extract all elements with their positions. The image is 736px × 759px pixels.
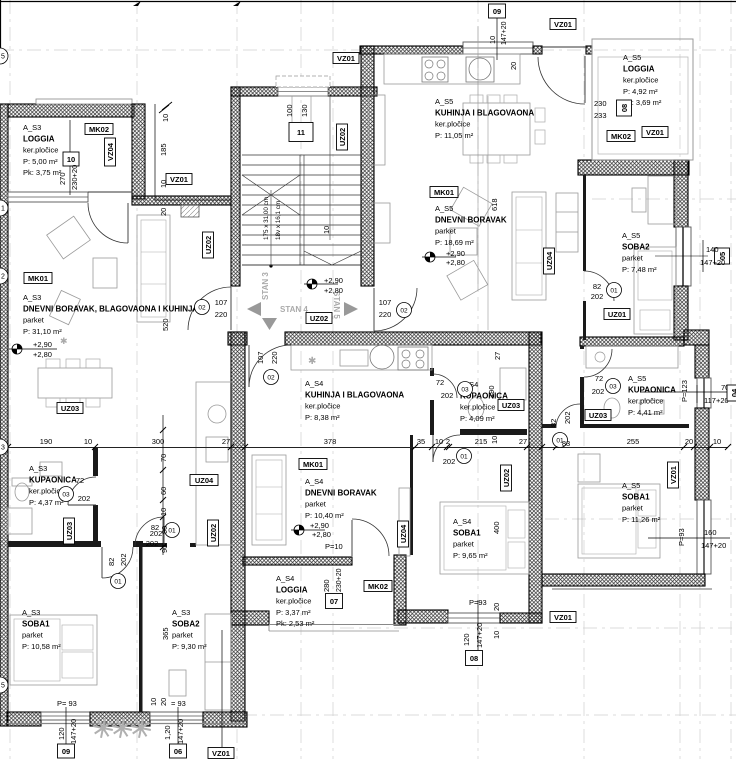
A_S3 SOBA1 door arc <box>102 547 133 578</box>
svg-text:A_S5: A_S5 <box>628 374 646 383</box>
A_S4 loggia door arc <box>352 519 389 556</box>
svg-text:300: 300 <box>152 437 165 446</box>
entrance canopy <box>276 76 330 87</box>
A_S3 north wall <box>132 196 231 205</box>
svg-text:A_S4: A_S4 <box>305 379 323 388</box>
svg-text:202: 202 <box>78 494 91 503</box>
A_S4 SOBA1 wardrobe <box>399 488 410 556</box>
A_S3 SOBA2 window <box>150 712 203 720</box>
svg-text:ker.pločice: ker.pločice <box>23 146 58 155</box>
A_S3 bathroom fixtures <box>15 483 29 501</box>
entrance door <box>278 87 328 96</box>
A_S5 SOBA1 bed <box>578 484 660 558</box>
svg-text:+2,90: +2,90 <box>310 521 329 530</box>
svg-text:03: 03 <box>461 387 469 394</box>
label VZ01 A_S5 soba1 <box>668 462 679 488</box>
svg-text:A_S3: A_S3 <box>23 293 41 302</box>
svg-text:parket: parket <box>22 631 44 640</box>
A_S3 loggia parapet <box>36 99 132 104</box>
A_S5 bathroom window <box>697 378 711 408</box>
svg-text:83: 83 <box>562 439 570 448</box>
svg-text:LOGGIA: LOGGIA <box>23 135 55 144</box>
svg-text:DNEVNI BORAVAK, BLAGOVAONA I K: DNEVNI BORAVAK, BLAGOVAONA I KUHINJA <box>23 305 198 314</box>
svg-text:P: 11,26 m²: P: 11,26 m² <box>622 515 661 524</box>
svg-text:KUPAONICA: KUPAONICA <box>628 386 676 395</box>
A_S5 SOBA2 north wall <box>578 160 689 175</box>
svg-text:190: 190 <box>40 437 53 446</box>
A_S3 level mark <box>9 344 57 354</box>
A_S5 SOBA2 window <box>676 227 691 286</box>
svg-text:202: 202 <box>119 553 128 566</box>
label UZ02 corridor <box>306 313 332 324</box>
svg-text:SOBA1: SOBA1 <box>22 620 50 629</box>
svg-text:01: 01 <box>610 288 618 295</box>
stairwell top wall left <box>231 87 278 96</box>
svg-text:10: 10 <box>488 36 497 44</box>
svg-text:09: 09 <box>62 747 70 756</box>
svg-text:P: 9,30 m²: P: 9,30 m² <box>172 642 207 651</box>
svg-text:20: 20 <box>492 603 501 611</box>
svg-text:233: 233 <box>594 111 607 120</box>
label UZ04 center <box>190 475 218 486</box>
svg-text:255: 255 <box>627 437 640 446</box>
A_S5 side table <box>369 203 390 243</box>
svg-text:A_S4: A_S4 <box>276 574 294 583</box>
svg-text:UZ04: UZ04 <box>195 476 214 485</box>
svg-text:60: 60 <box>159 487 168 495</box>
right exterior wall upper <box>674 160 688 227</box>
A_S3 SOBA2 desk <box>169 670 186 696</box>
label VZ01 top <box>333 53 359 64</box>
svg-text:A_S4: A_S4 <box>453 517 471 526</box>
A_S5 bathroom south wall <box>580 424 689 428</box>
svg-text:72: 72 <box>595 374 603 383</box>
svg-text:P: 3,37 m²: P: 3,37 m² <box>276 608 311 617</box>
A_S5 loggia door opening <box>542 46 586 48</box>
svg-text:LOGGIA: LOGGIA <box>623 65 655 74</box>
label UZ03 A_S5 bath <box>585 410 611 421</box>
svg-text:06: 06 <box>174 747 182 756</box>
svg-text:147+20: 147+20 <box>475 623 484 648</box>
label UZ02 A_S4 <box>501 465 512 491</box>
svg-text:2: 2 <box>1 274 5 281</box>
central dividing wall <box>231 332 245 721</box>
svg-text:147+20: 147+20 <box>700 258 725 267</box>
A_S3 bathroom south wall <box>8 541 101 547</box>
svg-text:03: 03 <box>609 384 617 391</box>
A_S4 stove <box>398 347 428 370</box>
A_S5 SOBA2 west wall upper <box>583 175 586 271</box>
tree 2 <box>112 718 132 738</box>
right exterior wall below window <box>674 286 688 340</box>
tree 1 <box>93 718 113 738</box>
A_S3 loggia top wall <box>8 104 134 117</box>
A_S3 SOBA2 north wall seg <box>143 543 167 547</box>
svg-text:A_S5: A_S5 <box>622 231 640 240</box>
A_S4 north wall <box>285 332 541 345</box>
A_S3 washing machine <box>8 508 32 534</box>
A_S4 loggia parapet <box>269 624 399 626</box>
label UZ04 A_S5 <box>544 248 555 274</box>
door tag 03 A_S5 bath <box>606 379 621 394</box>
svg-text:UZ03: UZ03 <box>502 401 520 410</box>
svg-text:VZ01: VZ01 <box>554 613 572 622</box>
svg-text:10: 10 <box>67 155 75 164</box>
svg-text:DNEVNI BORAVAK: DNEVNI BORAVAK <box>305 489 377 498</box>
svg-text:72: 72 <box>436 378 444 387</box>
label 11 entrance <box>289 123 313 142</box>
label 10 <box>63 152 79 166</box>
label MK02 A_S3 loggia <box>85 124 113 135</box>
label 08 right <box>617 100 632 116</box>
A_S4 SOBA1 window <box>448 613 500 623</box>
label 09 top <box>489 4 506 18</box>
svg-text:70: 70 <box>159 454 168 462</box>
right exterior wall mid <box>695 408 709 500</box>
svg-text:+2,90: +2,90 <box>324 276 343 285</box>
stairwell top wall right <box>328 87 377 96</box>
svg-text:KUHINJA I BLAGOVAONA: KUHINJA I BLAGOVAONA <box>305 391 404 400</box>
svg-text:MK01: MK01 <box>434 188 454 197</box>
svg-text:parket: parket <box>172 631 194 640</box>
A_S3 SOBA2 wardrobe <box>205 614 231 710</box>
label VZ01 bottom center <box>208 748 234 759</box>
A_S5 kitchen counter <box>384 54 520 84</box>
svg-text:27: 27 <box>519 437 527 446</box>
A_S5 bath sink <box>640 400 664 414</box>
svg-text:35: 35 <box>417 437 425 446</box>
svg-text:400: 400 <box>492 521 501 534</box>
A_S4 living/SOBA1 divider <box>410 435 413 555</box>
label 09 bottom <box>58 744 75 758</box>
A_S5 south wall <box>542 574 705 586</box>
svg-text:120: 120 <box>57 727 66 740</box>
svg-text:270: 270 <box>58 172 67 185</box>
dining table A_S3 <box>38 368 112 398</box>
svg-text:185: 185 <box>159 143 168 156</box>
top left vertical dim line <box>154 104 156 200</box>
svg-text:Pk: 3,75 m²: Pk: 3,75 m² <box>23 168 62 177</box>
corridor STAN arrows <box>247 302 261 316</box>
stairwell right wall <box>361 46 374 286</box>
A_S3 south wall seg3 <box>203 712 247 727</box>
corridor level mark <box>304 279 338 289</box>
A_S3 entry door arc <box>188 287 231 330</box>
svg-text:✱: ✱ <box>60 336 68 346</box>
label 05 right <box>715 248 730 264</box>
label VZ01 top right <box>550 19 576 30</box>
A_S5 tall cabinet <box>369 95 385 165</box>
svg-text:P: 31,10 m²: P: 31,10 m² <box>23 327 62 336</box>
svg-text:10: 10 <box>713 437 721 446</box>
svg-text:+2,90: +2,90 <box>446 249 465 258</box>
A_S4 shower <box>500 368 526 400</box>
label UZ02 A_S3 kitchen <box>208 520 219 546</box>
door tag 01 A_S5 soba1 <box>553 433 568 448</box>
svg-text:2: 2 <box>446 437 450 446</box>
svg-text:P: 4,37 m²: P: 4,37 m² <box>29 498 64 507</box>
svg-text:ker.pločice: ker.pločice <box>435 120 470 129</box>
svg-text:202: 202 <box>443 457 456 466</box>
svg-text:230: 230 <box>594 99 607 108</box>
A_S5 bathroom door arc <box>584 349 612 377</box>
label VZ01 bottom right <box>550 612 576 623</box>
svg-text:130: 130 <box>300 104 309 117</box>
svg-text:P=123: P=123 <box>680 380 689 402</box>
svg-text:618: 618 <box>490 198 499 211</box>
A_S3 SOBA2 north wall seg2 <box>190 543 196 547</box>
svg-text:365: 365 <box>161 627 170 640</box>
A_S5 north wall right stub <box>586 46 592 54</box>
coffee table A_S3 <box>93 258 117 288</box>
svg-text:P: 10,40 m²: P: 10,40 m² <box>305 511 344 520</box>
svg-text:+2,80: +2,80 <box>446 258 465 267</box>
svg-text:A_S5: A_S5 <box>622 481 640 490</box>
bathtub <box>586 346 678 368</box>
svg-text:+2,80: +2,80 <box>33 350 52 359</box>
right exterior step <box>684 330 709 345</box>
A_S5 north wall mid <box>533 46 542 54</box>
door tag 01 A_S3 soba1 <box>111 574 126 589</box>
svg-text:STAN 4: STAN 4 <box>280 305 308 314</box>
svg-text:VZ01: VZ01 <box>669 466 678 484</box>
top center dim <box>496 10 498 60</box>
door tag 01 A_S4 <box>457 449 472 464</box>
svg-text:parket: parket <box>435 227 457 236</box>
A_S3 kitchen counter <box>196 382 232 545</box>
svg-text:ker.pločice: ker.pločice <box>460 403 495 412</box>
svg-text:= 93: = 93 <box>171 699 186 708</box>
A_S3 SOBA1/SOBA2 divider <box>139 543 143 712</box>
A_S5 sink round <box>466 57 494 82</box>
svg-text:MK02: MK02 <box>89 125 109 134</box>
svg-text:STAN 3: STAN 3 <box>261 272 270 300</box>
label MK01 A_S3 <box>24 273 52 284</box>
A_S5 SOBA2 door arc <box>584 271 614 301</box>
A_S4 bathroom south wall stub <box>430 429 434 435</box>
A_S3 kitchen appliance <box>206 437 228 462</box>
svg-text:ker.pločice: ker.pločice <box>276 597 311 606</box>
svg-text:20: 20 <box>159 698 168 706</box>
label VZ01 right loggia <box>642 127 668 138</box>
A_S5 level mark <box>422 252 456 262</box>
tree 3 <box>131 718 151 738</box>
svg-text:A_S4: A_S4 <box>305 477 323 486</box>
A_S3 living furniture <box>47 216 91 259</box>
A_S4 loggia north wall <box>243 557 352 565</box>
main horizontal dimension line <box>8 447 728 449</box>
A_S3 loggia right wall <box>132 104 145 199</box>
svg-text:20: 20 <box>509 62 518 70</box>
sofa A_S3 <box>137 215 170 322</box>
svg-text:parket: parket <box>622 504 644 513</box>
label MK02 A_S4 loggia <box>364 581 392 592</box>
svg-text:+2,80: +2,80 <box>324 286 343 295</box>
svg-text:82: 82 <box>549 419 558 427</box>
svg-text:280: 280 <box>322 579 331 592</box>
A_S4 bathroom door arc <box>433 374 457 398</box>
label UZ03 A_S4 bath <box>498 400 524 411</box>
svg-text:08: 08 <box>620 104 629 112</box>
svg-text:P=10: P=10 <box>325 542 343 551</box>
A_S5 entry door arc <box>374 288 417 331</box>
A_S4 SOBA1 bed <box>440 502 529 574</box>
svg-text:220: 220 <box>270 351 279 364</box>
svg-text:5: 5 <box>1 683 5 690</box>
A_S5 SOBA1 door arc <box>556 404 580 428</box>
left exterior wall <box>0 104 8 726</box>
svg-text:P: 9,65 m²: P: 9,65 m² <box>453 551 488 560</box>
svg-text:10: 10 <box>490 436 499 444</box>
svg-text:82: 82 <box>593 282 601 291</box>
stairs <box>242 155 361 265</box>
svg-text:20: 20 <box>159 208 168 216</box>
label UZ02 stair <box>337 124 348 150</box>
svg-text:P: 4,09 m²: P: 4,09 m² <box>460 414 495 423</box>
svg-text:107: 107 <box>256 351 265 364</box>
door tag 01 soba2 <box>607 283 622 298</box>
A_S5 stove <box>422 57 448 82</box>
svg-text:08: 08 <box>470 654 478 663</box>
A_S4 bathroom south wall <box>460 429 527 435</box>
svg-text:90: 90 <box>160 545 169 553</box>
svg-text:MK02: MK02 <box>368 582 388 591</box>
svg-text:220: 220 <box>215 310 228 319</box>
svg-text:P: 18,69 m²: P: 18,69 m² <box>435 238 474 247</box>
svg-text:220: 220 <box>379 310 392 319</box>
svg-text:A_S5: A_S5 <box>435 204 453 213</box>
A_S3 SOBA1 bed <box>10 615 97 685</box>
svg-text:A_S3: A_S3 <box>29 464 47 473</box>
svg-text:147+20: 147+20 <box>501 21 508 45</box>
A_S4 kitchen counter <box>291 345 432 370</box>
label UZ04 A_S4 soba1 <box>398 521 409 547</box>
A_S4 loggia right wall <box>394 555 406 625</box>
svg-text:P= 93: P= 93 <box>57 699 77 708</box>
svg-text:MK02: MK02 <box>611 132 631 141</box>
A_S3 bath sink <box>40 462 62 476</box>
svg-text:SOBA2: SOBA2 <box>622 243 650 252</box>
svg-text:18v x 16,1 cm: 18v x 16,1 cm <box>275 201 282 240</box>
A_S4 bathroom west wall lower <box>430 400 434 435</box>
svg-text:10: 10 <box>322 226 331 234</box>
svg-text:P: 10,58 m²: P: 10,58 m² <box>22 642 61 651</box>
svg-text:20: 20 <box>685 437 693 446</box>
shaft <box>181 205 199 217</box>
svg-text:VZ04: VZ04 <box>106 142 115 161</box>
A_S4 sofa <box>252 455 286 545</box>
svg-text:UZ03: UZ03 <box>61 404 79 413</box>
svg-text:3: 3 <box>1 445 5 452</box>
A_S3 south wall seg1 <box>7 712 41 726</box>
svg-text:KUHINJA I BLAGOVAONA: KUHINJA I BLAGOVAONA <box>435 109 534 118</box>
svg-text:202: 202 <box>441 391 454 400</box>
svg-text:UZ02: UZ02 <box>338 128 347 146</box>
svg-text:UZ02: UZ02 <box>310 314 328 323</box>
A_S5 SOBA2 bed <box>634 247 676 334</box>
svg-text:190: 190 <box>487 385 496 398</box>
svg-text:07: 07 <box>330 597 338 606</box>
svg-text:72: 72 <box>76 476 84 485</box>
svg-text:04: 04 <box>730 388 736 397</box>
A_S3 kitchen dim line <box>162 415 164 555</box>
svg-text:UZ03: UZ03 <box>65 522 74 540</box>
corridor south wall stub <box>228 332 247 345</box>
svg-text:SOBA1: SOBA1 <box>622 493 650 502</box>
svg-text:09: 09 <box>493 7 501 16</box>
svg-text:LOGGIA: LOGGIA <box>276 586 308 595</box>
A_S5 kitchen window <box>463 42 533 54</box>
svg-text:147+20: 147+20 <box>701 541 726 550</box>
svg-text:02: 02 <box>267 375 275 382</box>
svg-text:A_S3: A_S3 <box>172 608 190 617</box>
svg-text:147+20: 147+20 <box>176 719 185 744</box>
svg-text:202: 202 <box>592 387 605 396</box>
label 08 bottom <box>466 651 483 666</box>
svg-text:UZ02: UZ02 <box>502 469 511 487</box>
svg-text:01: 01 <box>114 579 122 586</box>
door tag 03 A_S3 bath <box>59 487 74 502</box>
svg-text:VZ01: VZ01 <box>212 749 230 758</box>
svg-text:202: 202 <box>591 292 604 301</box>
svg-text:MK01: MK01 <box>28 274 48 283</box>
svg-text:+2,90: +2,90 <box>33 340 52 349</box>
right exterior wall <box>695 345 709 378</box>
svg-text:A_S5: A_S5 <box>623 53 641 62</box>
A_S5 south parapet <box>552 588 712 590</box>
A_S4 bathroom fixtures <box>468 397 484 419</box>
svg-text:03: 03 <box>62 492 70 499</box>
right dim lines <box>702 240 704 272</box>
svg-text:P: 8,38 m²: P: 8,38 m² <box>305 413 340 422</box>
svg-text:parket: parket <box>453 540 475 549</box>
svg-text:90: 90 <box>160 526 169 534</box>
A_S5 north wall left <box>360 46 463 54</box>
label MK01 A_S5 <box>430 187 458 198</box>
svg-text:202: 202 <box>563 411 572 424</box>
label UZ03 A_S3 bath <box>64 518 75 544</box>
svg-text:10: 10 <box>161 114 170 122</box>
svg-text:82: 82 <box>151 523 159 532</box>
svg-text:STAN 5: STAN 5 <box>332 291 341 319</box>
svg-text:A_S3: A_S3 <box>23 123 41 132</box>
svg-text:ker.pločice: ker.pločice <box>628 397 663 406</box>
A_S3 loggia window band <box>8 192 88 202</box>
A_S4 loggia south wall stub <box>231 611 269 625</box>
svg-text:A_S5: A_S5 <box>435 97 453 106</box>
bottom dim lines <box>65 707 67 744</box>
A_S5 coffee table <box>450 228 477 255</box>
svg-text:DNEVNI BORAVAK: DNEVNI BORAVAK <box>435 216 507 225</box>
svg-text:VZ01: VZ01 <box>170 175 188 184</box>
door tag 02 A_S3 <box>195 300 210 315</box>
label 06 bottom <box>170 744 187 758</box>
svg-text:10: 10 <box>159 180 168 188</box>
A_S4 SOBA1 door arc <box>433 435 460 462</box>
svg-text:27: 27 <box>493 352 502 360</box>
A_S4 level mark <box>291 525 325 535</box>
A_S4 sink2 <box>340 350 368 366</box>
svg-text:P: 4,92 m²: P: 4,92 m² <box>623 87 658 96</box>
svg-text:parket: parket <box>305 500 327 509</box>
label MK02 right loggia <box>607 131 635 142</box>
svg-text:+2,80: +2,80 <box>312 530 331 539</box>
svg-text:01: 01 <box>168 528 176 535</box>
svg-text:140: 140 <box>706 245 719 254</box>
svg-text:147+20: 147+20 <box>69 719 78 744</box>
svg-text:10: 10 <box>159 508 168 516</box>
svg-text:VZ01: VZ01 <box>337 54 355 63</box>
